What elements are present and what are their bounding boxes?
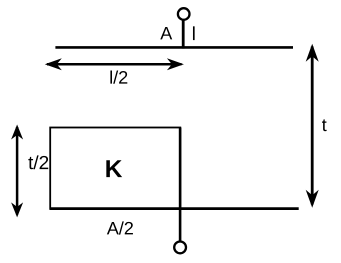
terminal: bottom connector circle: [174, 242, 186, 254]
label l/2: [110, 71, 127, 84]
label l (top, right of terminal lead): [193, 26, 195, 40]
label t/2: [28, 155, 48, 169]
dimension arrow l/2: [45, 58, 184, 70]
label A/2: [107, 221, 133, 234]
dielectric block K rectangle: [50, 128, 180, 209]
wire: top terminal lead: [182, 18, 185, 49]
wire: top conductor (length l): [55, 46, 293, 49]
label K: [106, 160, 122, 177]
label t: [322, 119, 327, 131]
dimension arrow t (right side): [306, 44, 319, 208]
dimension arrow t/2: [11, 125, 23, 218]
wire: bottom conductor: [50, 207, 299, 210]
terminal: top connector circle: [178, 8, 190, 20]
wire: bottom terminal lead: [179, 128, 182, 244]
label A (top, left of terminal lead): [160, 27, 172, 39]
